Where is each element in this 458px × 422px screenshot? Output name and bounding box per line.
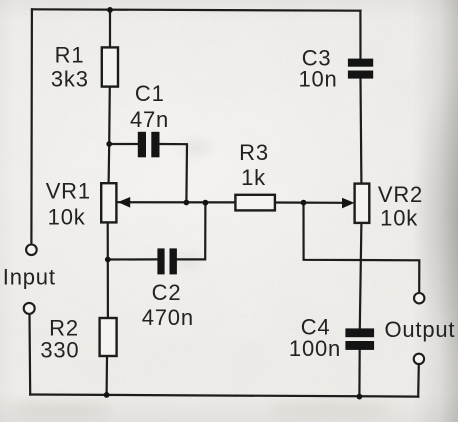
svg-text:R3: R3 [239,140,269,165]
svg-text:VR1: VR1 [46,178,91,203]
svg-text:R1: R1 [55,42,85,67]
svg-text:1k: 1k [241,165,266,190]
svg-text:VR2: VR2 [378,182,423,207]
svg-text:470n: 470n [142,305,194,330]
svg-text:10k: 10k [48,205,86,230]
svg-text:Input: Input [3,265,56,290]
svg-text:330: 330 [40,338,79,363]
svg-text:C1: C1 [135,81,165,106]
svg-text:Output: Output [384,317,455,342]
svg-text:C2: C2 [152,280,182,305]
svg-text:3k3: 3k3 [51,67,89,92]
svg-text:10k: 10k [380,206,418,231]
svg-text:10n: 10n [298,66,337,91]
svg-text:100n: 100n [289,336,341,361]
svg-text:47n: 47n [130,107,169,132]
